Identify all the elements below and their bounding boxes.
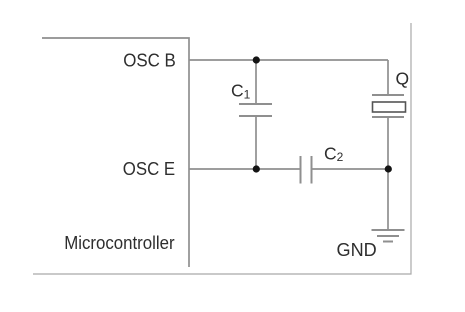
capacitor C2 plates xyxy=(300,156,302,184)
crystal Q bottom lead to ground xyxy=(387,117,389,230)
node junction dot on OSC E wire xyxy=(253,165,260,172)
figure border (right + bottom) xyxy=(33,23,411,274)
microcontroller U1 box (top and right edges) xyxy=(42,38,189,267)
svg-text:OSC E: OSC E xyxy=(123,158,175,179)
svg-text:C1: C1 xyxy=(231,81,251,102)
svg-text:OSC B: OSC B xyxy=(123,49,176,70)
capacitor C1 top lead xyxy=(255,60,257,104)
node junction dot at crystal node xyxy=(385,165,392,172)
wire OSC E to C2 xyxy=(189,168,300,170)
svg-text:Q: Q xyxy=(396,69,410,89)
svg-text:C2: C2 xyxy=(324,143,344,164)
wire OSC B to crystal xyxy=(189,59,388,61)
crystal Q top plate xyxy=(372,94,404,96)
wire C2 to crystal node xyxy=(312,168,389,170)
ground symbol bars xyxy=(372,229,405,231)
crystal Q body rectangle xyxy=(373,102,406,112)
node junction dot on OSC B wire xyxy=(253,56,260,63)
capacitor C1 plates xyxy=(239,103,272,105)
crystal Q bottom plate xyxy=(372,116,404,118)
capacitor C1 bottom lead xyxy=(255,116,257,169)
crystal Q top lead xyxy=(387,60,389,95)
svg-text:GND: GND xyxy=(337,239,377,260)
svg-text:Microcontroller: Microcontroller xyxy=(64,232,174,253)
